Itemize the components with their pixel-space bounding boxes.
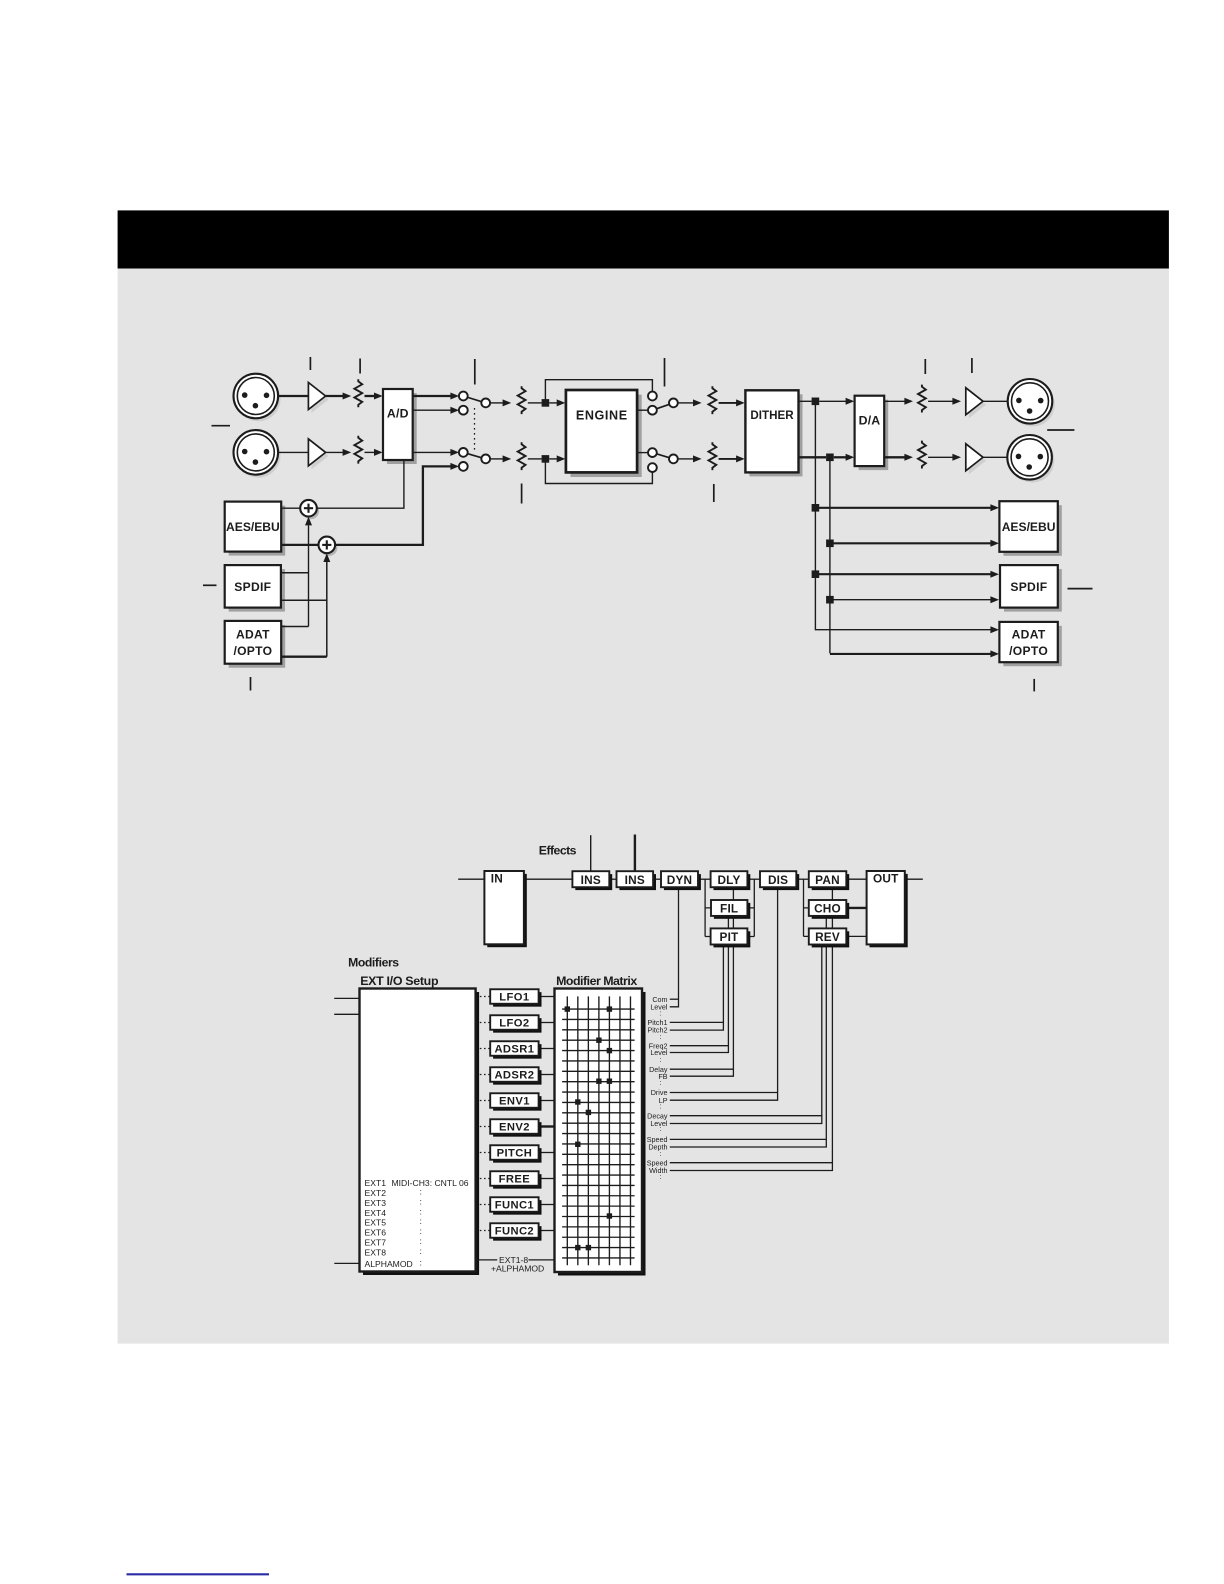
ADAT/OPTO input box — [229, 625, 286, 668]
gang line (dotted) — [474, 408, 476, 452]
ENGINE block — [571, 395, 642, 477]
svg-text:IN: IN — [491, 871, 503, 885]
svg-text::: : — [420, 1226, 422, 1236]
INS block 2 — [619, 874, 656, 890]
riser to sum 2 — [326, 562, 328, 657]
FUNC2 modifier box — [493, 1226, 541, 1241]
junction node AES L — [812, 504, 820, 512]
svg-text::: : — [660, 1008, 662, 1017]
A/D converter — [387, 393, 417, 464]
ENV2 modifier box — [493, 1122, 541, 1137]
wire DLY to DIS — [747, 878, 760, 880]
svg-text:EXT2: EXT2 — [365, 1188, 387, 1198]
svg-text:ADAT: ADAT — [236, 627, 270, 641]
svg-text::: : — [660, 1055, 662, 1064]
svg-text:CHO: CHO — [814, 901, 841, 915]
svg-text:ADSR2: ADSR2 — [494, 1070, 534, 1082]
svg-text:EXT8: EXT8 — [365, 1248, 387, 1258]
dither input pot L — [709, 386, 717, 414]
ADSR1 modifier box — [493, 1044, 541, 1059]
junction node AES R — [826, 540, 834, 548]
PIT bus — [670, 944, 724, 1030]
svg-text:ENV2: ENV2 — [499, 1122, 530, 1134]
dotted wire EXT to ADSR2 — [476, 1074, 491, 1076]
wire PITCH to matrix — [539, 1152, 555, 1154]
wire INS2 to DYN — [653, 878, 661, 880]
svg-text:INS: INS — [625, 873, 645, 887]
engine output switch L — [652, 403, 673, 410]
INS block 1 — [575, 874, 612, 890]
wire ENGINE out R — [638, 452, 649, 454]
link DLY cluster left — [705, 879, 711, 936]
digital feed bus R — [829, 457, 831, 653]
XLR output R — [1010, 438, 1055, 483]
svg-text:REV: REV — [815, 930, 840, 944]
wire XLR L to amp — [278, 395, 309, 397]
callout tick — [713, 484, 715, 502]
callout dash — [1047, 429, 1074, 431]
output amp R — [969, 447, 986, 474]
callout tick — [1033, 679, 1035, 692]
dotted wire EXT to LFO1 — [476, 996, 491, 998]
riser to sum 1 — [308, 526, 310, 627]
output amp L — [969, 391, 986, 418]
wire node to D/A L — [819, 400, 846, 402]
FIL block — [714, 903, 750, 919]
svg-text::: : — [420, 1186, 422, 1196]
wire chain in — [458, 878, 484, 880]
svg-text:ADAT: ADAT — [1012, 627, 1046, 641]
svg-text::: : — [660, 1149, 662, 1158]
callout tick — [250, 677, 252, 691]
svg-text:PIT: PIT — [720, 930, 740, 944]
svg-text:/OPTO: /OPTO — [233, 644, 272, 658]
svg-text:D/A: D/A — [859, 413, 881, 427]
wire CHO to OUT — [846, 907, 866, 909]
AES/EBU output box — [1003, 505, 1061, 556]
wire pot R to node — [528, 458, 542, 460]
svg-text:EXT4: EXT4 — [365, 1208, 387, 1218]
svg-text::: : — [660, 1101, 662, 1110]
dither input pot R — [709, 442, 717, 470]
DLY bus — [670, 887, 734, 1076]
wire A/D out R — [413, 451, 451, 453]
XLR input L — [236, 377, 281, 422]
wire AES lower to sum 2 — [282, 544, 318, 546]
engine input pot L — [518, 386, 526, 414]
svg-text:DITHER: DITHER — [750, 409, 794, 422]
DIS bus — [670, 887, 778, 1100]
svg-text:EXT5: EXT5 — [365, 1218, 387, 1228]
wire EXT bus to matrix — [476, 1259, 498, 1261]
wire FREE to matrix — [539, 1178, 555, 1180]
PAN bus — [670, 887, 833, 1170]
wire pot L to node — [528, 402, 542, 404]
svg-text::: : — [660, 1078, 662, 1087]
wire to AES/EBU out lower — [830, 542, 991, 544]
SPDIF output box — [1004, 569, 1062, 612]
wire to AES/EBU out upper — [815, 507, 990, 509]
callout dash — [212, 425, 231, 427]
svg-text:EXT7: EXT7 — [365, 1238, 387, 1248]
wire D/A out R — [885, 456, 905, 458]
input amp R — [311, 442, 328, 469]
dotted wire EXT to ENV2 — [476, 1126, 491, 1128]
svg-text:Depth: Depth — [648, 1143, 667, 1152]
wire ext in 2 — [334, 1013, 359, 1015]
parameter connector wires — [670, 998, 679, 1000]
callout tick — [474, 359, 476, 385]
svg-text:FUNC1: FUNC1 — [495, 1200, 534, 1212]
svg-text:AES/EBU: AES/EBU — [1002, 520, 1056, 534]
wire REV to OUT — [846, 935, 866, 937]
junction node dither L — [812, 398, 820, 406]
wire XLR R to amp — [278, 451, 309, 453]
wire switch R to dither pot — [678, 458, 694, 460]
insert tap 1 — [590, 835, 592, 871]
CHO bus — [670, 916, 827, 1147]
wire pot to DITHER L — [719, 402, 737, 404]
wire amp to XLR R — [983, 456, 1008, 458]
bypass wire L — [545, 380, 652, 403]
wire to SPDIF out lower — [830, 599, 991, 601]
wire sum 1 to A/D clock — [317, 460, 404, 508]
callout tick — [359, 359, 361, 374]
DYN bus — [670, 887, 679, 1007]
svg-text:LFO2: LFO2 — [499, 1018, 529, 1030]
svg-text:EXT I/O Setup: EXT I/O Setup — [360, 974, 439, 988]
wire INS1 to INS2 — [609, 878, 616, 880]
svg-text::: : — [420, 1257, 422, 1267]
svg-text::: : — [420, 1206, 422, 1216]
REV bus — [670, 944, 822, 1123]
dotted wire EXT to ENV1 — [476, 1100, 491, 1102]
gray diagram panel — [118, 269, 1169, 1344]
svg-text:EXT3: EXT3 — [365, 1198, 387, 1208]
wire pot to amp L — [928, 400, 953, 402]
IN block — [487, 874, 527, 947]
engine output switch R — [652, 453, 673, 459]
dotted wire EXT to LFO2 — [476, 1022, 491, 1024]
ADSR2 modifier box — [493, 1070, 541, 1085]
dotted wire EXT to FUNC2 — [476, 1230, 491, 1232]
svg-text:OUT: OUT — [873, 871, 899, 885]
CHO block — [812, 903, 850, 919]
junction node R — [542, 455, 550, 463]
PAN block — [812, 874, 850, 890]
junction node SPDIF R — [826, 596, 834, 604]
callout tick — [664, 358, 666, 387]
wire ENGINE out L — [638, 409, 649, 411]
matrix pins — [565, 1006, 570, 1011]
dotted wire EXT to ADSR1 — [476, 1048, 491, 1050]
digital feed bus L — [815, 401, 990, 629]
svg-text::: : — [660, 1172, 662, 1181]
svg-text:Pitch2: Pitch2 — [648, 1026, 668, 1035]
callout tick — [971, 358, 973, 373]
svg-text::: : — [420, 1196, 422, 1206]
XLR input R — [236, 433, 281, 478]
svg-text:Width: Width — [649, 1166, 667, 1175]
ENV1 modifier box — [493, 1096, 541, 1111]
wire pot to amp R — [928, 456, 953, 458]
Modifier Matrix box — [558, 992, 646, 1276]
PIT block — [714, 931, 751, 947]
wire amp to XLR L — [983, 400, 1008, 402]
wire DITHER out R — [799, 456, 826, 458]
matrix grid — [566, 996, 568, 1265]
svg-text:FREE: FREE — [499, 1174, 531, 1186]
svg-text:SPDIF: SPDIF — [1010, 580, 1047, 594]
ADAT/OPTO output box — [1003, 626, 1061, 666]
link PAN cluster left — [804, 879, 809, 936]
wire pot R to A/D — [365, 451, 376, 453]
dotted wire EXT to PITCH — [476, 1152, 491, 1154]
input amp L — [311, 386, 328, 413]
input level pot L — [354, 379, 362, 407]
D/A converter — [859, 400, 889, 470]
svg-text:INS: INS — [581, 873, 601, 887]
callout tick — [924, 359, 926, 374]
sum node 2 — [321, 539, 338, 556]
wire ENV1 to matrix — [539, 1100, 555, 1102]
svg-text::: : — [420, 1246, 422, 1256]
input select switch L — [463, 396, 485, 403]
EXT I/O Setup box — [363, 992, 479, 1275]
svg-text:EXT6: EXT6 — [365, 1228, 387, 1238]
PITCH modifier box — [493, 1148, 541, 1163]
wire to SPDIF out upper — [815, 573, 990, 575]
wire SPDIF lower to riser 2 — [281, 599, 327, 601]
output level pot R — [918, 441, 926, 469]
FREE modifier box — [493, 1174, 541, 1189]
junction node SPDIF L — [812, 570, 820, 578]
svg-text:Modifier Matrix: Modifier Matrix — [556, 974, 637, 988]
callout tick — [521, 484, 523, 504]
sum node 1 — [303, 503, 320, 520]
svg-text:Modifiers: Modifiers — [348, 956, 399, 970]
svg-text:PITCH: PITCH — [497, 1148, 533, 1160]
wire IN to INS1 — [524, 878, 573, 880]
wire A/D out L — [413, 395, 451, 397]
wire ADSR2 to matrix — [539, 1074, 555, 1076]
DYN block — [664, 874, 701, 890]
wire amp L to pot — [326, 395, 343, 397]
wire LFO1 to matrix — [539, 996, 555, 998]
wire AES upper to sum 1 — [282, 507, 300, 509]
input select switch R — [463, 452, 485, 459]
wire amp R to pot — [326, 451, 343, 453]
svg-text:ALPHAMOD: ALPHAMOD — [365, 1259, 413, 1269]
wire switch R to pot — [490, 458, 503, 460]
svg-text::: : — [420, 1236, 422, 1246]
svg-text:DIS: DIS — [768, 873, 788, 887]
wire node L to ENGINE — [549, 402, 557, 404]
wire FUNC2 to matrix — [539, 1230, 555, 1232]
svg-text::: : — [660, 1124, 662, 1133]
DIS block — [763, 874, 799, 890]
svg-text:ENGINE: ENGINE — [576, 408, 628, 422]
wire chain out — [905, 878, 923, 880]
wire ADAT lower to riser 2 — [281, 656, 327, 658]
wire LFO2 to matrix — [539, 1022, 555, 1024]
LFO2 modifier box — [493, 1018, 541, 1033]
svg-text:AES/EBU: AES/EBU — [226, 520, 280, 534]
bypass wire R — [545, 459, 652, 484]
svg-text:A/D: A/D — [387, 406, 409, 420]
svg-text:+ALPHAMOD: +ALPHAMOD — [491, 1264, 544, 1274]
AES/EBU input box — [229, 506, 286, 556]
wire switch L to pot — [490, 402, 503, 404]
svg-text:ENV1: ENV1 — [499, 1096, 530, 1108]
output level pot L — [918, 385, 926, 413]
svg-text:ADSR1: ADSR1 — [494, 1044, 534, 1056]
wire ext in 1 — [334, 997, 359, 999]
REV block — [812, 931, 850, 947]
svg-text:FUNC2: FUNC2 — [495, 1226, 534, 1238]
DITHER block — [749, 394, 802, 476]
blue footer rule — [127, 1573, 270, 1575]
wire pot to DITHER R — [719, 458, 737, 460]
insert tap 2 — [634, 835, 636, 872]
svg-text::: : — [660, 1032, 662, 1041]
wire PAN to OUT — [846, 878, 866, 880]
wire sum 2 to switch R — [335, 466, 451, 545]
callout tick — [309, 357, 311, 370]
LFO1 modifier box — [493, 992, 541, 1007]
wire node to D/A R — [834, 456, 846, 458]
svg-text:DYN: DYN — [667, 873, 693, 887]
svg-text:SPDIF: SPDIF — [234, 580, 271, 594]
callout dash — [203, 584, 217, 586]
wire FUNC1 to matrix — [539, 1204, 555, 1206]
XLR output L — [1010, 382, 1055, 427]
OUT block — [870, 874, 908, 947]
dotted wire EXT to FREE — [476, 1178, 491, 1180]
DLY block — [714, 874, 751, 890]
junction node dither R — [826, 454, 834, 462]
black header bar — [118, 210, 1169, 268]
wire D/A out L — [885, 400, 905, 402]
svg-text::: : — [420, 1216, 422, 1226]
wire DIS to PAN — [796, 878, 809, 880]
wire A/D digital loop L — [413, 409, 451, 411]
svg-text:Effects: Effects — [539, 844, 577, 858]
SPDIF input box — [229, 569, 285, 612]
FUNC1 modifier box — [493, 1200, 541, 1215]
wire ADSR1 to matrix — [539, 1048, 555, 1050]
svg-text:MIDI-CH3: CNTL 06: MIDI-CH3: CNTL 06 — [392, 1178, 469, 1188]
wire pot L to A/D — [365, 395, 376, 397]
svg-text:/OPTO: /OPTO — [1009, 644, 1048, 658]
junction node L — [542, 399, 550, 407]
wire DYN to DLY — [698, 878, 711, 880]
wire SPDIF upper to riser 1 — [281, 572, 309, 574]
callout dash — [1068, 588, 1093, 590]
svg-text:EXT1: EXT1 — [365, 1178, 387, 1188]
svg-text:DLY: DLY — [717, 873, 740, 887]
wire switch L to dither pot — [678, 402, 694, 404]
wire node R to ENGINE — [549, 458, 557, 460]
link DLY cluster right — [747, 879, 754, 936]
svg-text:FIL: FIL — [720, 901, 738, 915]
engine input pot R — [518, 442, 526, 470]
wire ADAT upper to riser 1 — [281, 626, 308, 628]
dotted wire EXT to FUNC1 — [476, 1204, 491, 1206]
FIL bus — [670, 916, 729, 1053]
wire ENV2 to matrix — [539, 1125, 555, 1127]
svg-text:LFO1: LFO1 — [499, 992, 529, 1004]
wire DITHER out L — [799, 400, 812, 402]
wire alphamod in — [334, 1262, 359, 1264]
input level pot R — [354, 436, 362, 464]
svg-text:PAN: PAN — [815, 873, 840, 887]
